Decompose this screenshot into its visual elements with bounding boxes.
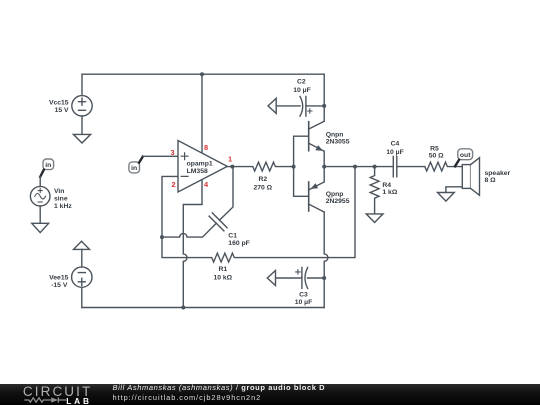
ground below Vin bbox=[32, 223, 49, 232]
capacitor C3 (bypass to ground) bbox=[276, 268, 325, 307]
svg-text:8: 8 bbox=[204, 143, 208, 152]
wire speaker bottom to ground bbox=[446, 187, 462, 193]
svg-text:1 kHz: 1 kHz bbox=[54, 203, 72, 210]
svg-text:10 µF: 10 µF bbox=[293, 87, 311, 94]
voltage source Vee15 bbox=[49, 267, 92, 289]
footer bar bbox=[0, 384, 540, 405]
svg-text:Vin: Vin bbox=[54, 188, 64, 195]
svg-text:R5: R5 bbox=[430, 145, 439, 152]
ground below R4 bbox=[366, 214, 383, 223]
svg-text:160 pF: 160 pF bbox=[228, 240, 250, 247]
pin number 3 bbox=[170, 148, 174, 157]
svg-text:R2: R2 bbox=[258, 176, 267, 183]
port out bbox=[458, 149, 473, 160]
svg-text:out: out bbox=[460, 152, 471, 159]
svg-text:opamp1: opamp1 bbox=[187, 161, 213, 168]
svg-text:3: 3 bbox=[170, 148, 174, 157]
node R4 tap bbox=[373, 165, 377, 169]
svg-text:50 Ω: 50 Ω bbox=[429, 152, 444, 159]
op-amp opamp1 LM358 bbox=[178, 141, 227, 193]
svg-text:2N3055: 2N3055 bbox=[326, 138, 350, 145]
capacitor C2 (bypass to ground) bbox=[276, 79, 324, 117]
pin number 4 bbox=[204, 180, 209, 189]
port in (opamp side) bbox=[129, 162, 140, 173]
transistor Qnpn 2N3055 bbox=[309, 121, 350, 166]
port out leader bbox=[455, 160, 459, 166]
svg-text:2N2955: 2N2955 bbox=[326, 198, 350, 205]
attribution text bbox=[113, 383, 326, 403]
node top-rail junction bbox=[200, 72, 204, 76]
node opamp output bbox=[230, 165, 234, 169]
wire Vcc bottom lead bbox=[81, 116, 83, 134]
svg-text:C4: C4 bbox=[391, 141, 400, 148]
voltage source Vcc15 bbox=[49, 96, 92, 116]
svg-text:15 V: 15 V bbox=[55, 107, 69, 114]
port in2 leader bbox=[139, 157, 143, 163]
svg-text:1: 1 bbox=[228, 155, 232, 164]
resistor R2 bbox=[227, 162, 293, 191]
svg-text:2: 2 bbox=[171, 180, 175, 189]
speaker 8 ohm bbox=[462, 158, 510, 196]
CircuitLab logo CIRCUIT bbox=[23, 384, 92, 399]
node emitters junction bbox=[322, 165, 326, 169]
svg-text:sine: sine bbox=[54, 195, 68, 202]
ground below Vcc bbox=[73, 134, 90, 143]
wire Vin bottom lead bbox=[39, 206, 41, 223]
wire bottom rail bbox=[82, 307, 324, 309]
svg-text:Qpnp: Qpnp bbox=[326, 191, 344, 198]
pin number 2 bbox=[171, 180, 175, 189]
ground left of C3 bbox=[267, 271, 275, 286]
capacitor C1 bbox=[209, 167, 250, 247]
port in leader bbox=[40, 170, 44, 177]
wire C1 branch with hop bbox=[162, 223, 216, 237]
transistor Qpnp 2N2955 bbox=[309, 167, 350, 212]
svg-text:speaker: speaker bbox=[485, 170, 511, 177]
wire Vee top lead bbox=[81, 249, 83, 267]
logo squiggle resistor-diode bbox=[0, 384, 110, 405]
CircuitLab logo LAB bbox=[66, 396, 92, 405]
ground below speaker bbox=[438, 193, 455, 202]
ground left of C2 bbox=[268, 98, 276, 113]
svg-text:10 kΩ: 10 kΩ bbox=[213, 274, 232, 281]
node C3 junction bbox=[322, 276, 326, 280]
wire to pin 3 bbox=[142, 155, 178, 157]
wire collector drop from rail bbox=[323, 74, 325, 121]
svg-text:R1: R1 bbox=[218, 266, 227, 273]
wire top rail bbox=[82, 73, 324, 75]
wire pin2 feedback bbox=[162, 176, 178, 237]
svg-text:in: in bbox=[45, 162, 51, 169]
node R2 to bases bbox=[292, 165, 296, 169]
svg-text:-15 V: -15 V bbox=[51, 282, 68, 289]
wire output line bbox=[324, 166, 393, 168]
svg-text:10 µF: 10 µF bbox=[386, 149, 404, 156]
pin number 1 bbox=[228, 155, 232, 164]
port in (source side) bbox=[43, 159, 54, 170]
pin number 8 bbox=[204, 143, 208, 152]
voltage source Vin sine bbox=[30, 186, 72, 210]
wire C4 to R5 bbox=[397, 166, 425, 168]
capacitor C4 bbox=[386, 141, 404, 177]
node feedback junction bbox=[160, 235, 164, 239]
svg-text:4: 4 bbox=[204, 180, 209, 189]
node bottom rail junction bbox=[181, 306, 185, 310]
resistor R5 bbox=[425, 145, 463, 171]
svg-text:8 Ω: 8 Ω bbox=[485, 177, 497, 184]
wire Vee bottom lead bbox=[81, 287, 83, 307]
wire base rail bbox=[294, 136, 309, 196]
wire port to Vin bbox=[39, 176, 41, 186]
wire Vcc top lead bbox=[81, 74, 83, 95]
node feedback tap bbox=[353, 165, 357, 169]
svg-text:Vee15: Vee15 bbox=[49, 274, 68, 281]
wire PNP collector to rail with hop bbox=[324, 212, 328, 308]
node C2 junction bbox=[322, 104, 326, 108]
ground above Vee (up arrow) bbox=[74, 241, 90, 249]
svg-text:C2: C2 bbox=[297, 79, 306, 86]
svg-text:in: in bbox=[131, 165, 137, 172]
resistor R4 bbox=[370, 167, 398, 214]
svg-text:LM358: LM358 bbox=[187, 168, 208, 175]
resistor R1 (feedback) bbox=[162, 167, 355, 282]
svg-text:Vcc15: Vcc15 bbox=[49, 100, 69, 107]
svg-text:C1: C1 bbox=[228, 232, 237, 239]
svg-text:R4: R4 bbox=[382, 182, 391, 189]
wire opamp pin8 supply bbox=[201, 74, 203, 153]
svg-text:C3: C3 bbox=[299, 292, 308, 299]
svg-text:270 Ω: 270 Ω bbox=[253, 184, 272, 191]
svg-text:10 µF: 10 µF bbox=[295, 299, 313, 306]
svg-text:1 kΩ: 1 kΩ bbox=[382, 189, 397, 196]
wire pin4 to Vee rail bbox=[183, 180, 202, 308]
